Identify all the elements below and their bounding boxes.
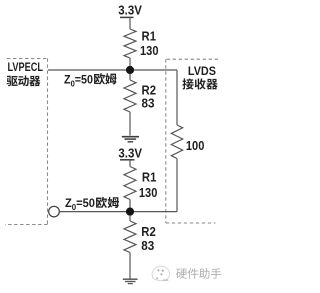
wire: rail to R1 <box>129 17 131 29</box>
svg-text:100: 100 <box>186 139 205 153</box>
wire: horizontal net 1 from LVPECL to LVDS <box>48 69 177 71</box>
svg-text:83: 83 <box>141 239 154 253</box>
resistor R2 (bottom) <box>129 215 131 221</box>
LVPECL Chinese: driver <box>7 76 41 87</box>
termination resistor RT 100 <box>171 125 182 159</box>
svg-text:130: 130 <box>139 186 158 200</box>
svg-text:LVPECL: LVPECL <box>8 60 44 74</box>
output pin circle on LVPECL box <box>49 206 60 217</box>
svg-text:Z0=50: Z0=50 <box>64 72 93 88</box>
LVPECL driver dashed box <box>5 59 48 225</box>
wire: R2 to ground (top) <box>129 112 131 136</box>
resistor R2 (top) <box>129 74 131 80</box>
power rail bar (top) <box>120 16 134 18</box>
watermark text <box>176 268 221 279</box>
svg-text:83: 83 <box>142 97 155 111</box>
wire: rail2 to R1 <box>129 160 131 167</box>
svg-text:Z0=50: Z0=50 <box>65 196 95 212</box>
wire: R1 to node (bottom) <box>129 200 131 212</box>
power rail bar (bottom) <box>120 159 135 161</box>
ground symbol (bottom) <box>123 279 138 283</box>
wire: R2 to ground (bottom) <box>129 253 131 279</box>
svg-text:R1: R1 <box>142 171 157 185</box>
junction node (top) <box>126 66 134 74</box>
wire: net1 down to RT <box>176 70 178 125</box>
resistor R1 (bottom) <box>124 167 136 200</box>
svg-text:130: 130 <box>140 44 159 58</box>
svg-text:LVDS: LVDS <box>188 64 216 78</box>
wire: R1 to node (top) <box>129 58 131 70</box>
junction node (bottom) <box>126 208 134 216</box>
LVDS Chinese: receiver <box>182 78 217 89</box>
LVDS receiver dashed box <box>166 59 218 223</box>
svg-text:3.3V: 3.3V <box>118 4 142 18</box>
wire: horizontal net 2 <box>59 211 177 213</box>
resistor R1 (top) <box>124 29 136 58</box>
ground symbol (top) <box>122 137 139 142</box>
svg-text:R2: R2 <box>141 225 156 239</box>
svg-text:3.3V: 3.3V <box>118 147 142 161</box>
svg-text:R2: R2 <box>142 84 157 98</box>
svg-text:R1: R1 <box>142 30 157 44</box>
watermark icon <box>152 266 170 280</box>
wire: RT down to net2 <box>176 159 178 212</box>
